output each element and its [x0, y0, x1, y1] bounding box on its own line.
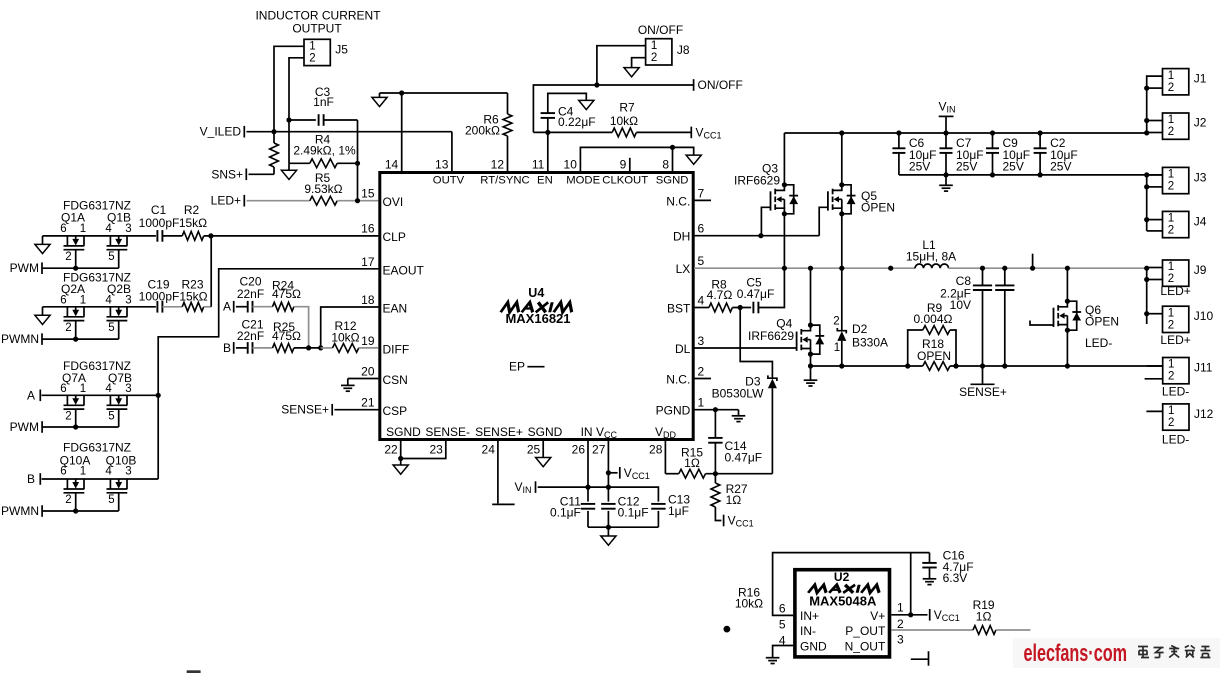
svg-text:A: A	[223, 300, 231, 314]
svg-text:SGND: SGND	[656, 175, 689, 187]
svg-text:475Ω: 475Ω	[272, 287, 301, 301]
terminal VCC1 at pin27	[608, 472, 617, 474]
wire EN row	[533, 131, 612, 133]
wire SGND pin25 to ground	[542, 439, 544, 457]
wire J8 pin2 to ground	[632, 58, 646, 68]
svg-text:6: 6	[60, 466, 66, 478]
svg-text:N_OUT: N_OUT	[845, 639, 886, 653]
wire P_OUT pin2	[891, 629, 973, 631]
wire J5 pin1 to V_ILED line	[274, 46, 304, 131]
svg-text:4: 4	[698, 294, 705, 308]
svg-text:1: 1	[1168, 114, 1174, 126]
svg-text:21: 21	[361, 396, 375, 410]
svg-text:J8: J8	[677, 43, 690, 57]
svg-text:17: 17	[361, 255, 375, 269]
svg-text:3: 3	[125, 223, 131, 235]
svg-text:9: 9	[620, 158, 627, 172]
ground at pin25	[536, 458, 551, 467]
wire Q4 drain to LX	[810, 268, 812, 325]
terminal PWM Q1	[41, 262, 43, 274]
svg-text:0.1μF: 0.1μF	[618, 506, 649, 520]
svg-text:2: 2	[1168, 319, 1174, 331]
svg-text:B: B	[27, 472, 35, 486]
terminal stub below N_OUT	[911, 658, 929, 660]
svg-text:475Ω: 475Ω	[272, 329, 301, 343]
svg-text:BST: BST	[667, 302, 691, 316]
svg-text:19: 19	[361, 334, 375, 348]
svg-text:11: 11	[532, 158, 545, 172]
wire IN pin26	[587, 439, 589, 501]
svg-text:J4: J4	[1194, 215, 1207, 229]
bottom edge mark	[187, 670, 201, 673]
svg-text:6: 6	[60, 294, 66, 306]
svg-text:1000pF: 1000pF	[139, 290, 180, 304]
terminal A Q7	[39, 390, 41, 402]
stray dot	[724, 626, 731, 633]
ground at PGND	[732, 415, 746, 417]
svg-text:MODE: MODE	[566, 175, 600, 187]
svg-text:1nF: 1nF	[313, 95, 334, 109]
svg-text:IN-: IN-	[800, 624, 816, 638]
svg-text:10kΩ: 10kΩ	[610, 114, 638, 128]
svg-text:15μH, 8A: 15μH, 8A	[906, 249, 956, 263]
connector J9	[1163, 260, 1189, 286]
svg-text:2: 2	[651, 52, 657, 64]
svg-text:1: 1	[834, 342, 840, 354]
wire LX rail after L1	[949, 267, 1147, 269]
svg-text:PWM: PWM	[10, 261, 39, 275]
svg-text:OUTPUT: OUTPUT	[292, 22, 342, 36]
capacitor unlabeled next to C8	[1004, 268, 1006, 285]
svg-text:25: 25	[527, 443, 541, 457]
svg-text:6.3V: 6.3V	[943, 571, 968, 585]
svg-text:2: 2	[897, 617, 904, 631]
wire Q5 source to LX / D2	[841, 214, 843, 268]
svg-text:DL: DL	[675, 342, 691, 356]
svg-text:24: 24	[482, 443, 496, 457]
svg-text:4: 4	[105, 223, 112, 235]
svg-text:SGND: SGND	[386, 425, 421, 439]
svg-text:J12: J12	[1194, 407, 1214, 421]
terminal B Q10	[39, 473, 41, 485]
U4 MAXIM logo	[501, 302, 574, 312]
svg-text:2: 2	[1168, 126, 1174, 138]
svg-text:1: 1	[80, 466, 86, 478]
ground below C7	[945, 175, 947, 185]
svg-text:5: 5	[108, 251, 114, 263]
svg-text:1: 1	[80, 294, 86, 306]
svg-text:22: 22	[384, 443, 398, 457]
op-amp U2 MAX5048A body	[795, 570, 890, 657]
svg-text:LED-: LED-	[1085, 336, 1112, 350]
terminal PWM Q7	[41, 421, 43, 433]
svg-text:1Ω: 1Ω	[976, 610, 992, 624]
ground at CSN pin20	[348, 378, 379, 380]
svg-text:2: 2	[698, 365, 705, 379]
svg-text:9.53kΩ: 9.53kΩ	[304, 182, 342, 196]
wire DL pin3 to Q4 gate	[694, 347, 797, 349]
svg-text:200kΩ: 200kΩ	[465, 124, 500, 138]
wire U2 pin4 GND	[773, 646, 794, 658]
svg-text:1Ω: 1Ω	[684, 456, 700, 470]
svg-text:2.49kΩ, 1%: 2.49kΩ, 1%	[293, 144, 356, 158]
ground below C12	[601, 536, 616, 545]
svg-text:2: 2	[309, 53, 315, 65]
wire BST pin4	[694, 307, 709, 309]
wire Q5 drain to VIN rail	[841, 133, 843, 185]
svg-text:SNS+: SNS+	[211, 167, 243, 181]
svg-text:CSP: CSP	[383, 404, 408, 418]
svg-text:22nF: 22nF	[237, 329, 264, 343]
svg-text:V+: V+	[870, 609, 885, 623]
svg-text:1: 1	[80, 383, 86, 395]
wire R23 up to CLP node	[204, 306, 212, 308]
svg-text:2: 2	[1168, 225, 1174, 237]
svg-text:IN: IN	[581, 425, 593, 439]
svg-text:IN+: IN+	[800, 609, 819, 623]
svg-text:14: 14	[385, 158, 399, 172]
svg-text:1μF: 1μF	[668, 504, 689, 518]
svg-text:1: 1	[309, 41, 315, 53]
svg-text:elecfans·com: elecfans·com	[1024, 640, 1128, 667]
svg-text:SGND: SGND	[528, 425, 563, 439]
svg-text:4: 4	[105, 466, 112, 478]
terminal VCC1 at U2	[929, 609, 931, 621]
svg-text:GND: GND	[800, 639, 827, 653]
wire J9/J10 to LX rail	[1146, 268, 1148, 324]
svg-text:0.22μF: 0.22μF	[558, 115, 596, 129]
svg-text:0.1μF: 0.1μF	[550, 506, 581, 520]
svg-text:6: 6	[779, 602, 786, 616]
svg-text:7: 7	[698, 186, 705, 200]
wire C4 top to ground	[548, 93, 587, 113]
svg-text:10kΩ: 10kΩ	[331, 331, 359, 345]
svg-text:20: 20	[361, 365, 375, 379]
svg-text:OVI: OVI	[383, 195, 404, 209]
ground at MODE net	[686, 155, 701, 164]
wire J11 pin2 stub	[1145, 378, 1163, 380]
svg-text:FDG6317NZ: FDG6317NZ	[63, 440, 131, 454]
svg-text:P_OUT: P_OUT	[845, 624, 886, 638]
svg-text:16: 16	[361, 222, 375, 236]
svg-text:25V: 25V	[956, 160, 977, 174]
wire V_ILED line	[247, 131, 452, 133]
svg-text:A: A	[27, 388, 35, 402]
svg-text:26: 26	[572, 443, 586, 457]
wire VIN rail	[784, 132, 1146, 134]
wire CLKOUT pin9 stub	[629, 158, 631, 171]
svg-text:27: 27	[592, 443, 606, 457]
resistor R3 vertical (unlabeled)	[273, 132, 275, 143]
wire J8 pin1 to ON/OFF line	[597, 46, 646, 85]
svg-text:IRF6629: IRF6629	[734, 174, 780, 188]
svg-text:R2: R2	[184, 203, 200, 217]
svg-text:PGND: PGND	[656, 404, 691, 418]
svg-text:15: 15	[361, 187, 375, 201]
ground at Q2	[42, 307, 44, 316]
svg-text:2: 2	[1168, 181, 1174, 193]
svg-text:25V: 25V	[1050, 160, 1071, 174]
svg-text:DH: DH	[673, 230, 690, 244]
connector J4	[1163, 211, 1189, 237]
wire J5 pin2 to C3 node	[289, 58, 304, 120]
svg-text:LED-: LED-	[1162, 432, 1189, 446]
svg-text:1Ω: 1Ω	[726, 493, 742, 507]
terminal VCC1 at R27	[723, 515, 725, 527]
ground below R4	[288, 163, 290, 170]
svg-text:EAOUT: EAOUT	[383, 263, 425, 277]
wire Q3 drain to VIN rail	[783, 133, 785, 185]
svg-text:SENSE+: SENSE+	[475, 425, 523, 439]
wire J1/J2 to VIN rail	[1147, 76, 1163, 133]
wire N.C. pin2 stub	[694, 378, 711, 380]
svg-text:8: 8	[662, 158, 669, 172]
svg-text:PWMN: PWMN	[1, 332, 39, 346]
svg-text:D2: D2	[852, 322, 868, 336]
svg-text:3: 3	[698, 334, 705, 348]
svg-text:J1: J1	[1194, 72, 1207, 86]
svg-text:LED+: LED+	[1160, 333, 1190, 347]
svg-text:2: 2	[833, 316, 839, 328]
svg-text:4: 4	[105, 294, 112, 306]
wire SGND pin8 stub	[672, 147, 674, 171]
svg-text:J3: J3	[1194, 171, 1207, 185]
svg-text:25V: 25V	[1003, 160, 1024, 174]
svg-text:R7: R7	[619, 101, 635, 115]
svg-text:1: 1	[1168, 169, 1174, 181]
ground below Q4	[804, 379, 818, 381]
wire V_ILED to pin13	[451, 132, 453, 171]
svg-text:N.C.: N.C.	[666, 194, 690, 208]
wire EN pin	[547, 132, 549, 171]
svg-text:J9: J9	[1194, 263, 1207, 277]
svg-text:12: 12	[491, 158, 505, 172]
svg-text:J2: J2	[1194, 116, 1207, 130]
svg-text:13: 13	[435, 158, 449, 172]
wire VCC pin27	[607, 439, 609, 501]
test stub on LX	[1032, 254, 1034, 269]
svg-text:RT/SYNC: RT/SYNC	[480, 175, 529, 187]
svg-text:1: 1	[651, 40, 657, 52]
elecfans watermark	[1013, 638, 1220, 668]
svg-text:18: 18	[361, 293, 375, 307]
svg-text:10kΩ: 10kΩ	[735, 597, 763, 611]
svg-text:B: B	[223, 341, 231, 355]
svg-text:1: 1	[1168, 70, 1174, 82]
wire SENSE- pin24 stub	[497, 439, 499, 503]
svg-text:MAX16821: MAX16821	[505, 311, 570, 326]
wire Q3 source to LX	[783, 214, 785, 268]
wire pin14 net	[380, 92, 508, 94]
svg-text:0.004Ω: 0.004Ω	[914, 312, 953, 326]
svg-text:5: 5	[108, 322, 114, 334]
wire pin14 to IC	[401, 93, 403, 171]
svg-text:N.C.: N.C.	[666, 373, 690, 387]
connector J11	[1163, 358, 1189, 384]
wire N.C. pin7 stub	[694, 199, 711, 201]
wire VCC row to C13	[588, 487, 658, 502]
svg-text:25V: 25V	[909, 160, 930, 174]
svg-text:0.47μF: 0.47μF	[737, 287, 775, 301]
svg-text:23: 23	[429, 443, 443, 457]
ground below C16	[923, 578, 937, 580]
svg-text:J5: J5	[335, 43, 348, 57]
wire DH pin6 to gates	[694, 235, 819, 237]
svg-text:22nF: 22nF	[237, 287, 264, 301]
wire Q2 gate rail PWMN	[75, 321, 77, 340]
wire EAOUT pin17 to Q7/Q10 rails	[158, 269, 378, 479]
svg-text:SENSE+: SENSE+	[959, 385, 1007, 399]
wire C14 top to PGND	[714, 410, 716, 438]
connector J12	[1163, 404, 1189, 430]
svg-text:SENSE+: SENSE+	[281, 403, 329, 417]
svg-text:ON/OFF: ON/OFF	[698, 78, 743, 92]
wire Q3 gate	[761, 207, 770, 235]
wire MODE pin10 to ground	[580, 147, 693, 171]
wire J12 pin1 stub	[1146, 410, 1162, 412]
ground at U2 pin4	[766, 657, 780, 659]
svg-text:1: 1	[1168, 213, 1174, 225]
svg-text:5: 5	[698, 254, 705, 268]
svg-text:4: 4	[105, 383, 112, 395]
svg-text:OUTV: OUTV	[433, 175, 465, 187]
connector J10	[1163, 306, 1189, 332]
wire Q6 drain to LX	[1066, 268, 1068, 301]
svg-text:3: 3	[897, 632, 904, 646]
wire Q6 gate open stub	[1030, 321, 1054, 326]
wire Q1 gate rail PWM	[75, 250, 77, 269]
svg-text:INDUCTOR CURRENT: INDUCTOR CURRENT	[255, 9, 381, 23]
svg-text:B0530LW: B0530LW	[712, 386, 764, 400]
wire ON/OFF line	[533, 85, 693, 132]
op-amp U4 MAX16821 body	[380, 173, 693, 440]
wire Q10 gate rail PWMN	[75, 493, 77, 511]
svg-text:EAN: EAN	[383, 302, 408, 316]
svg-text:5: 5	[779, 618, 786, 632]
svg-text:1: 1	[80, 223, 86, 235]
svg-text:OPEN: OPEN	[861, 201, 895, 215]
connector J5	[304, 39, 330, 65]
wire R4 left to ground	[288, 120, 290, 163]
svg-text:6: 6	[60, 383, 66, 395]
connector J1	[1163, 69, 1189, 95]
ground at pin22	[393, 465, 408, 474]
connector J3	[1163, 167, 1189, 193]
wire V+ to rail	[910, 553, 912, 615]
ground at J8 pin2	[624, 68, 639, 77]
svg-text:CLP: CLP	[383, 230, 406, 244]
svg-text:EN: EN	[537, 175, 553, 187]
wire PGND pin1	[694, 409, 715, 411]
svg-text:OPEN: OPEN	[1085, 315, 1119, 329]
svg-text:2: 2	[65, 494, 71, 506]
svg-text:LED-: LED-	[1162, 385, 1189, 399]
wire R2 to CLP pin16	[204, 235, 379, 237]
wire LX rail from pin5	[694, 267, 915, 269]
svg-text:IRF6629: IRF6629	[748, 329, 794, 343]
svg-text:0.47μF: 0.47μF	[725, 450, 763, 464]
wire Q6 source to rail	[1066, 330, 1068, 366]
ground above C4	[579, 100, 594, 109]
svg-text:B330A: B330A	[852, 336, 888, 350]
svg-text:3: 3	[125, 294, 131, 306]
svg-text:1: 1	[1168, 307, 1174, 319]
svg-text:2: 2	[1168, 417, 1174, 429]
svg-text:10V: 10V	[950, 298, 971, 312]
wire Q5 gate	[819, 207, 828, 235]
svg-text:1: 1	[698, 396, 705, 410]
connector J2	[1163, 113, 1189, 139]
wire J11 pin1 to rail	[1147, 365, 1163, 367]
svg-text:MAX5048A: MAX5048A	[809, 594, 877, 609]
svg-text:2: 2	[65, 322, 71, 334]
svg-text:3: 3	[125, 466, 131, 478]
terminal SENSE+	[982, 366, 984, 384]
svg-text:10: 10	[564, 158, 578, 172]
svg-text:1000pF: 1000pF	[139, 216, 180, 230]
svg-text:LX: LX	[676, 262, 691, 276]
wire R24 down to B row	[294, 307, 309, 348]
svg-text:4.7Ω: 4.7Ω	[707, 288, 733, 302]
svg-text:LED+: LED+	[211, 194, 241, 208]
svg-text:U4: U4	[528, 286, 544, 300]
svg-text:28: 28	[649, 443, 663, 457]
wire SGND pin22/23 to ground	[401, 439, 446, 458]
svg-text:J10: J10	[1194, 309, 1214, 323]
svg-text:J11: J11	[1194, 361, 1213, 375]
svg-text:5: 5	[108, 494, 114, 506]
svg-text:PWMN: PWMN	[1, 504, 39, 518]
svg-text:EP: EP	[509, 360, 525, 374]
svg-text:3: 3	[125, 383, 131, 395]
svg-text:2: 2	[1168, 371, 1174, 383]
svg-text:DIFF: DIFF	[383, 342, 410, 356]
terminal ON/OFF	[693, 79, 695, 91]
ground at Q1	[42, 236, 44, 245]
terminal PWMN Q2	[41, 333, 43, 345]
wire cap ground rail	[899, 174, 1163, 176]
wire U2 pin6 to VCC1 rail	[773, 553, 930, 616]
wire Q4 source to ground rail	[810, 354, 812, 366]
svg-text:LED+: LED+	[1160, 284, 1190, 298]
ground at pin14 net	[379, 93, 381, 97]
wire Q7 gate rail PWM	[75, 409, 77, 427]
svg-text:5: 5	[108, 410, 114, 422]
connector J8	[646, 39, 672, 65]
terminal PWMN Q10	[41, 505, 43, 517]
svg-text:ON/OFF: ON/OFF	[638, 23, 683, 37]
svg-text:1: 1	[1168, 261, 1174, 273]
wire VDD pin28 to R15	[664, 439, 666, 474]
wire C5 to LX node	[758, 268, 784, 307]
wire cap bottoms to ground	[587, 511, 589, 527]
svg-text:PWM: PWM	[10, 420, 39, 434]
svg-text:15kΩ: 15kΩ	[179, 216, 207, 230]
terminal VCC1 at R7	[690, 127, 692, 139]
wire C3 right down to OVI node	[357, 120, 359, 201]
svg-text:V_ILED: V_ILED	[200, 125, 242, 139]
svg-text:2: 2	[1168, 82, 1174, 94]
svg-text:CLKOUT: CLKOUT	[602, 175, 648, 187]
svg-text:CSN: CSN	[383, 373, 408, 387]
svg-text:6: 6	[60, 223, 66, 235]
wire to EAN pin18	[321, 307, 379, 348]
wire J3/J4 to ground rail	[1146, 175, 1148, 231]
U2 MAXIM logo	[808, 585, 881, 593]
svg-text:U2: U2	[834, 570, 850, 584]
svg-text:1: 1	[1168, 359, 1174, 371]
svg-text:6: 6	[698, 222, 705, 236]
